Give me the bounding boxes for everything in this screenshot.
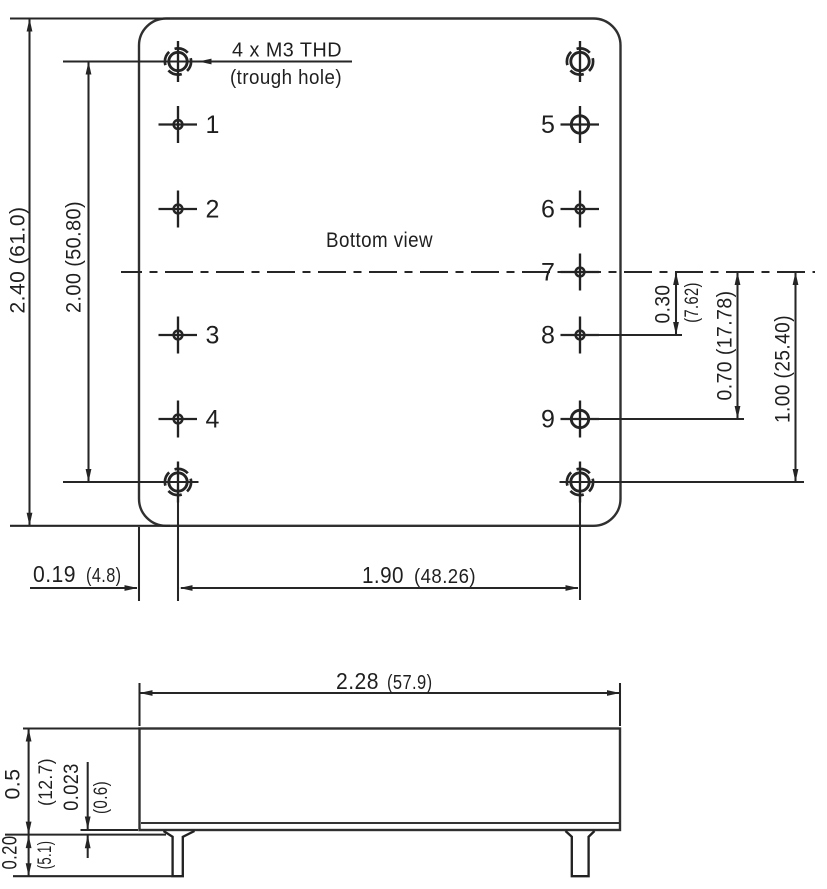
svg-text:2.28: 2.28: [336, 668, 379, 694]
svg-text:(57.9): (57.9): [387, 671, 433, 694]
pin 9: [561, 401, 600, 438]
svg-text:8: 8: [541, 322, 555, 350]
svg-text:0.19: 0.19: [33, 561, 76, 587]
svg-text:(48.26): (48.26): [414, 565, 476, 588]
side view: module body outline: [140, 729, 621, 831]
extension line pin 8 row: [561, 334, 682, 336]
svg-text:0.70 (17.78): 0.70 (17.78): [713, 291, 737, 401]
side view: dimension 0.5 (12.7) top extension line: [23, 727, 140, 729]
svg-text:(5.1): (5.1): [34, 841, 56, 870]
extension line: left hole column downward: [177, 503, 179, 602]
side view: dimension 2.28 (57.9) right extension tick: [619, 683, 621, 726]
dimension 1.90 (48.26): dimension line with arrows: [181, 587, 578, 589]
svg-text:1.00 (25.40): 1.00 (25.40): [771, 315, 795, 423]
side view: seating plane extension line: [5, 834, 166, 836]
svg-text:(0.6): (0.6): [90, 781, 112, 814]
dimension 2.00 (50.80): bottom extension line (bottom-left hole row): [63, 481, 199, 483]
svg-text:3: 3: [206, 322, 220, 350]
dimension 0.70 (17.78): dimension line with arrows: [736, 272, 738, 419]
svg-text:2: 2: [206, 196, 220, 224]
svg-text:9: 9: [541, 406, 555, 434]
svg-text:6: 6: [541, 196, 555, 224]
extension line bottom-right hole row (1.00): [560, 481, 805, 483]
leader line for M3 note (also top hole row / 2.00 extension): [63, 60, 352, 62]
side view: dimension 2.28 (57.9) left extension tick: [138, 683, 140, 726]
dimension 2.40 (61.0): top extension line: [10, 17, 170, 19]
side view: dimension 2.28 (57.9) dimension line with arrows: [140, 692, 621, 694]
side view: right pin with standoff shoulder: [566, 831, 595, 876]
side view: dimension 0.023 lower line with arrow: [87, 835, 89, 858]
pin 4: [159, 401, 198, 438]
mounting hole top-left: [165, 41, 191, 82]
svg-text:(12.7): (12.7): [35, 758, 57, 806]
dimension 2.40 (61.0): bottom extension line: [10, 525, 170, 527]
extension line pin 9 row: [561, 418, 744, 420]
svg-text:0.20: 0.20: [0, 836, 22, 870]
svg-text:4 x M3 THD: 4 x M3 THD: [232, 39, 342, 62]
dimension 2.00 (50.80): dimension line with arrows: [87, 62, 89, 483]
svg-text:2.40 (61.0): 2.40 (61.0): [6, 207, 30, 314]
module outline (bottom view body): [139, 19, 621, 526]
pin 1: [159, 106, 198, 143]
side view: dimension 0.5 line with arrows: [28, 729, 30, 835]
svg-text:4: 4: [206, 406, 220, 434]
svg-text:0.5: 0.5: [1, 769, 25, 800]
side view: dimension 0.20 (5.1) line with arrows: [28, 835, 30, 877]
side view: left pin with standoff shoulder: [164, 831, 195, 876]
pin 7: [561, 254, 600, 291]
mounting hole bottom-left: [165, 462, 191, 503]
dimension 1.00 (25.40): dimension line with arrows: [794, 272, 796, 482]
svg-text:7: 7: [541, 259, 555, 287]
svg-text:5: 5: [541, 111, 555, 139]
leader arrowhead: [199, 59, 212, 65]
svg-text:0.30: 0.30: [651, 285, 675, 324]
extension line: right hole column downward: [579, 503, 581, 601]
dimension 0.30 (7.62): dimension line with arrows: [675, 272, 677, 335]
pin 2: [159, 191, 198, 228]
dimension 2.40 (61.0): dimension line with arrows: [28, 19, 30, 526]
svg-text:1: 1: [206, 111, 220, 139]
svg-text:(trough hole): (trough hole): [230, 66, 342, 89]
svg-text:1.90: 1.90: [362, 562, 404, 588]
svg-text:(7.62): (7.62): [681, 282, 703, 323]
centerline (horizontal dash-dot axis): [121, 271, 815, 273]
pin 6: [561, 191, 600, 228]
svg-text:0.023: 0.023: [59, 763, 83, 811]
mounting hole bottom-right: [567, 462, 593, 503]
side view: pin bottom extension line: [13, 875, 172, 877]
svg-text:2.00 (50.80): 2.00 (50.80): [62, 201, 86, 313]
pin 8: [561, 317, 600, 354]
svg-text:(4.8): (4.8): [86, 564, 122, 587]
pin 3: [159, 317, 198, 354]
side view: dimension 0.023 (0.6) body-bottom extension line: [81, 829, 139, 831]
extension line: body left edge downward: [138, 527, 140, 601]
dimension 0.19 (4.8): line and outside arrow: [30, 587, 137, 589]
side view: dimension 0.023 upper line with arrow: [87, 762, 89, 830]
mounting hole top-right: [567, 41, 593, 82]
svg-text:Bottom view: Bottom view: [326, 228, 433, 252]
side view: baseplate separation line: [141, 822, 619, 824]
pin 5: [561, 106, 600, 143]
